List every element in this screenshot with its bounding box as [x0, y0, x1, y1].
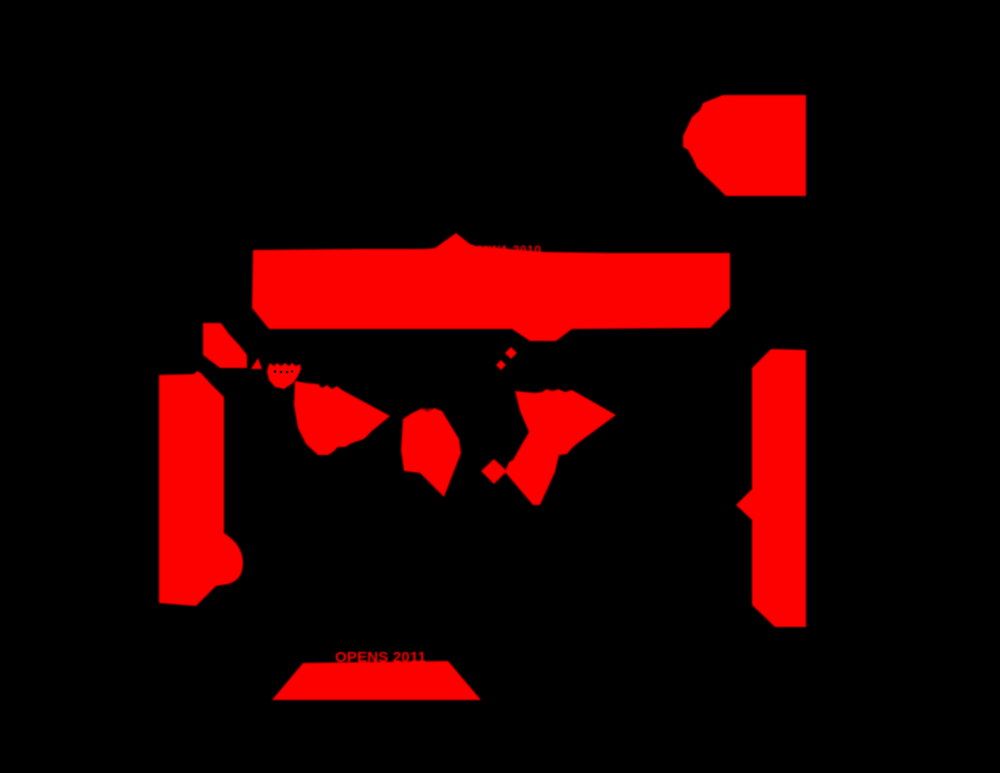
lower bowl section B — [401, 408, 461, 497]
north stand band — [252, 233, 730, 341]
lower bowl section A — [294, 381, 390, 455]
west stand block — [159, 371, 243, 606]
south stand trapezoid — [272, 661, 481, 700]
svg-text:mn: mn — [318, 385, 330, 394]
step diamond upper — [505, 347, 517, 359]
svg-text:mn: mn — [420, 406, 432, 415]
specks inside label cluster — [274, 370, 293, 373]
northwest aisle ribbon — [203, 323, 247, 368]
small wedge by aisle — [251, 358, 262, 369]
svg-text:mn: mn — [544, 387, 558, 397]
svg-text:MWA 2010: MWA 2010 — [478, 243, 542, 257]
east stand strip — [736, 349, 806, 627]
lower bowl section C — [505, 389, 616, 505]
centre diamond — [481, 459, 507, 484]
northeast upper tier section — [683, 95, 806, 196]
label cluster blob — [267, 363, 301, 389]
step diamond lower — [496, 360, 506, 370]
svg-text:OPENS 2011: OPENS 2011 — [335, 649, 426, 666]
